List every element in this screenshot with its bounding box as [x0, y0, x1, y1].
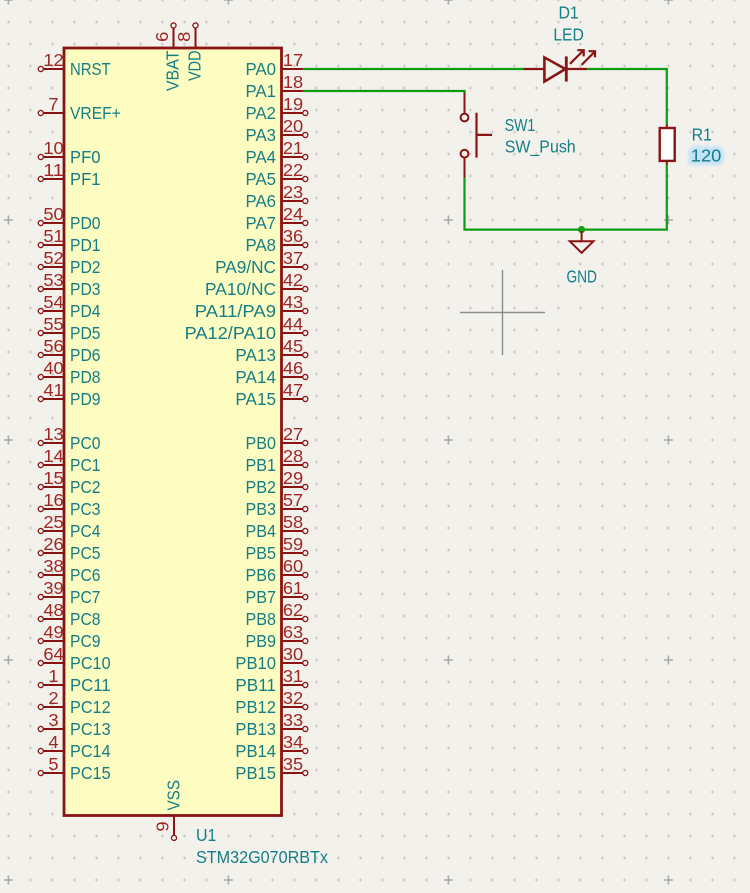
svg-text:STM32G070RBTx: STM32G070RBTx: [196, 847, 328, 867]
svg-text:PC9: PC9: [70, 631, 101, 651]
svg-text:PB7: PB7: [246, 587, 277, 607]
svg-text:6: 6: [152, 32, 172, 42]
svg-text:R1: R1: [692, 125, 712, 145]
svg-text:PD3: PD3: [70, 279, 101, 299]
svg-text:50: 50: [43, 204, 63, 224]
svg-text:20: 20: [283, 116, 303, 136]
svg-text:61: 61: [283, 578, 303, 598]
svg-text:9: 9: [153, 821, 173, 831]
svg-text:PC14: PC14: [70, 741, 111, 761]
svg-text:14: 14: [43, 446, 64, 466]
svg-text:PB5: PB5: [246, 543, 277, 563]
svg-text:PA6: PA6: [246, 191, 277, 211]
svg-text:60: 60: [283, 556, 303, 576]
svg-text:PB4: PB4: [246, 521, 277, 541]
svg-text:12: 12: [43, 50, 63, 70]
svg-text:36: 36: [283, 226, 303, 246]
svg-text:U1: U1: [196, 825, 216, 845]
svg-text:54: 54: [43, 292, 64, 312]
svg-text:PD5: PD5: [70, 323, 101, 343]
svg-text:PB3: PB3: [246, 499, 277, 519]
svg-text:44: 44: [283, 314, 304, 334]
svg-text:51: 51: [43, 226, 63, 246]
svg-text:VREF+: VREF+: [70, 103, 121, 123]
svg-text:64: 64: [43, 644, 64, 664]
svg-text:PA1: PA1: [246, 81, 277, 101]
svg-text:NRST: NRST: [70, 59, 111, 79]
svg-text:10: 10: [43, 138, 63, 158]
svg-text:PA15: PA15: [235, 389, 276, 409]
svg-text:33: 33: [283, 710, 303, 730]
svg-text:PB2: PB2: [246, 477, 277, 497]
svg-text:PB14: PB14: [235, 741, 276, 761]
svg-text:2: 2: [48, 688, 58, 708]
svg-text:37: 37: [283, 248, 303, 268]
svg-text:62: 62: [283, 600, 303, 620]
svg-text:30: 30: [283, 644, 303, 664]
svg-text:PC2: PC2: [70, 477, 101, 497]
svg-text:PA13: PA13: [235, 345, 276, 365]
svg-text:PF1: PF1: [70, 169, 101, 189]
svg-text:18: 18: [283, 72, 303, 92]
svg-text:PB10: PB10: [235, 653, 276, 673]
svg-text:PD9: PD9: [70, 389, 101, 409]
svg-text:29: 29: [283, 468, 303, 488]
svg-text:PA9/NC: PA9/NC: [215, 257, 276, 277]
svg-text:PD6: PD6: [70, 345, 101, 365]
svg-text:PC6: PC6: [70, 565, 101, 585]
svg-text:PC12: PC12: [70, 697, 111, 717]
svg-text:52: 52: [43, 248, 63, 268]
svg-text:PA5: PA5: [246, 169, 277, 189]
svg-text:46: 46: [283, 358, 303, 378]
svg-text:GND: GND: [566, 266, 597, 286]
svg-text:13: 13: [43, 424, 63, 444]
svg-text:PC8: PC8: [70, 609, 101, 629]
svg-text:41: 41: [43, 380, 63, 400]
svg-text:40: 40: [43, 358, 63, 378]
svg-text:59: 59: [283, 534, 303, 554]
svg-text:SW_Push: SW_Push: [505, 137, 576, 157]
svg-text:7: 7: [48, 94, 58, 114]
svg-text:3: 3: [48, 710, 58, 730]
svg-text:58: 58: [283, 512, 303, 532]
svg-text:23: 23: [283, 182, 303, 202]
svg-text:VBAT: VBAT: [163, 50, 183, 91]
svg-text:28: 28: [283, 446, 303, 466]
svg-text:5: 5: [48, 754, 58, 774]
svg-text:PB11: PB11: [235, 675, 276, 695]
svg-text:PC0: PC0: [70, 433, 101, 453]
svg-text:PC4: PC4: [70, 521, 101, 541]
svg-text:PC10: PC10: [70, 653, 111, 673]
svg-text:48: 48: [43, 600, 63, 620]
svg-text:21: 21: [283, 138, 303, 158]
svg-text:31: 31: [283, 666, 303, 686]
svg-text:49: 49: [43, 622, 63, 642]
svg-text:VSS: VSS: [164, 780, 184, 811]
svg-text:63: 63: [283, 622, 303, 642]
svg-text:PA7: PA7: [246, 213, 277, 233]
svg-text:PD1: PD1: [70, 235, 101, 255]
svg-text:4: 4: [48, 732, 59, 752]
svg-text:17: 17: [283, 50, 303, 70]
svg-text:39: 39: [43, 578, 63, 598]
svg-text:SW1: SW1: [505, 115, 536, 135]
svg-text:D1: D1: [558, 3, 578, 23]
svg-text:35: 35: [283, 754, 303, 774]
svg-text:PF0: PF0: [70, 147, 101, 167]
svg-text:57: 57: [283, 490, 303, 510]
svg-text:19: 19: [283, 94, 303, 114]
svg-text:PA0: PA0: [246, 59, 277, 79]
svg-text:LED: LED: [553, 24, 584, 44]
svg-text:PC15: PC15: [70, 763, 111, 783]
svg-text:PB8: PB8: [246, 609, 277, 629]
svg-text:PD4: PD4: [70, 301, 101, 321]
svg-text:PA3: PA3: [246, 125, 277, 145]
svg-text:PA4: PA4: [246, 147, 277, 167]
svg-text:VDD: VDD: [185, 51, 205, 82]
svg-text:PD8: PD8: [70, 367, 101, 387]
svg-text:120: 120: [691, 145, 722, 165]
svg-text:55: 55: [43, 314, 63, 334]
svg-text:PC7: PC7: [70, 587, 101, 607]
svg-text:38: 38: [43, 556, 63, 576]
svg-text:53: 53: [43, 270, 63, 290]
svg-text:PB13: PB13: [235, 719, 276, 739]
svg-text:1: 1: [48, 666, 58, 686]
svg-text:PC1: PC1: [70, 455, 101, 475]
svg-text:47: 47: [283, 380, 303, 400]
svg-text:26: 26: [43, 534, 63, 554]
svg-text:PA8: PA8: [246, 235, 277, 255]
svg-text:PD0: PD0: [70, 213, 101, 233]
svg-text:PC5: PC5: [70, 543, 101, 563]
svg-text:27: 27: [283, 424, 303, 444]
svg-text:PA11/PA9: PA11/PA9: [195, 301, 276, 321]
svg-text:8: 8: [174, 32, 194, 42]
svg-text:PB1: PB1: [246, 455, 277, 475]
svg-text:PB12: PB12: [235, 697, 276, 717]
svg-text:PA14: PA14: [235, 367, 276, 387]
svg-text:45: 45: [283, 336, 303, 356]
svg-text:PB0: PB0: [246, 433, 277, 453]
svg-text:24: 24: [283, 204, 304, 224]
svg-text:PB9: PB9: [246, 631, 277, 651]
svg-text:42: 42: [283, 270, 303, 290]
svg-text:32: 32: [283, 688, 303, 708]
svg-text:PC13: PC13: [70, 719, 111, 739]
svg-text:PB6: PB6: [246, 565, 277, 585]
svg-text:PA12/PA10: PA12/PA10: [185, 323, 276, 343]
svg-text:56: 56: [43, 336, 63, 356]
svg-text:34: 34: [283, 732, 304, 752]
svg-text:22: 22: [283, 160, 303, 180]
svg-text:PB15: PB15: [235, 763, 276, 783]
svg-text:PA10/NC: PA10/NC: [205, 279, 276, 299]
svg-text:16: 16: [43, 490, 63, 510]
svg-text:15: 15: [43, 468, 63, 488]
svg-text:PA2: PA2: [246, 103, 277, 123]
svg-text:PC3: PC3: [70, 499, 101, 519]
svg-text:43: 43: [283, 292, 303, 312]
svg-text:11: 11: [43, 160, 63, 180]
svg-text:PD2: PD2: [70, 257, 101, 277]
svg-text:25: 25: [43, 512, 63, 532]
svg-text:PC11: PC11: [70, 675, 111, 695]
